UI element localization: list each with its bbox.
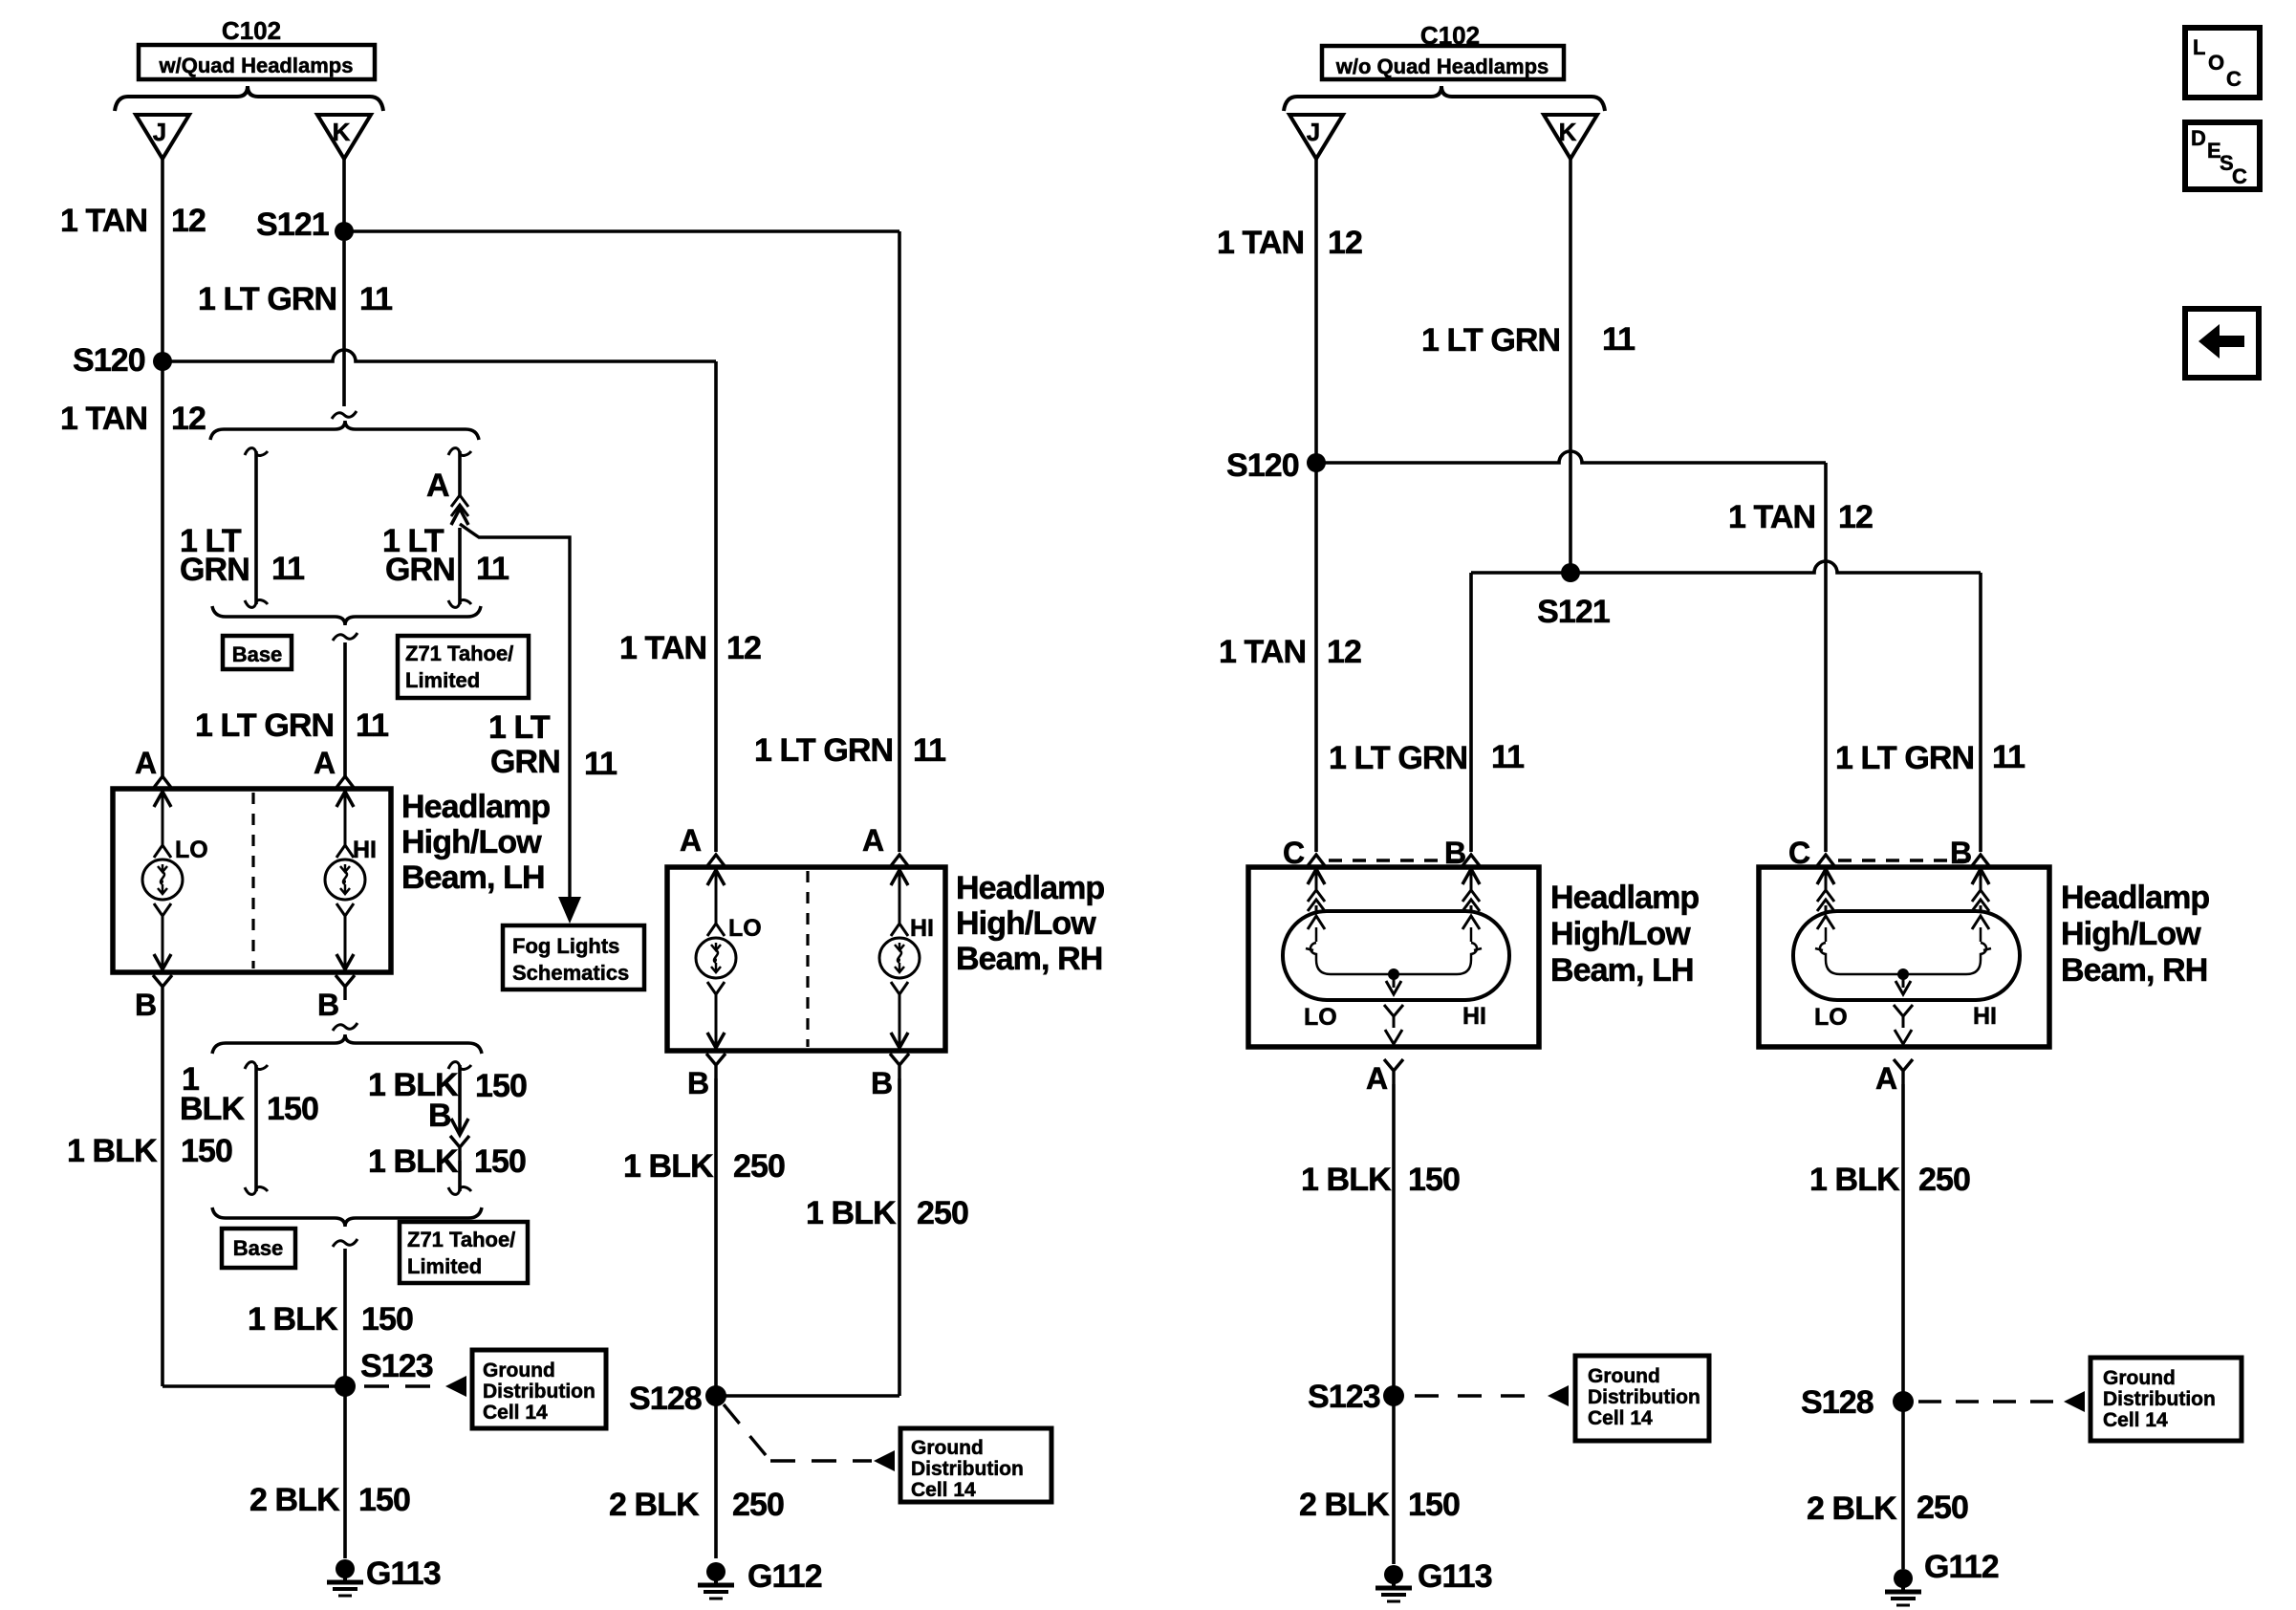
svg-text:150: 150 [475, 1068, 527, 1104]
svg-text:HI: HI [353, 837, 377, 863]
svg-text:LO: LO [1814, 1004, 1848, 1031]
node S128 (middle) [705, 1385, 726, 1406]
svg-text:Ground: Ground [2103, 1367, 2176, 1389]
ground option bracket Base [245, 1062, 268, 1070]
svg-text:A: A [314, 746, 336, 780]
wire K vertical above S120 (1 LT GRN 11) [342, 241, 346, 406]
headlamp High/Low Beam, RH HI bulb [879, 938, 920, 978]
svg-text:11: 11 [476, 551, 509, 587]
headlamp High/Low Beam, LH (w/o quad) filament stadium [1283, 911, 1509, 1000]
svg-text:11: 11 [913, 732, 945, 769]
svg-text:12: 12 [726, 630, 761, 666]
svg-text:C102: C102 [222, 16, 281, 45]
headlamp High/Low Beam, LH LO branch arrows [154, 792, 171, 807]
svg-text:1 LT GRN: 1 LT GRN [754, 732, 893, 769]
Ground Distribution Cell 14 box (S123 left) [472, 1350, 606, 1428]
wire J vertical (right, 1 TAN 12) [1314, 159, 1318, 852]
svg-text:1 LT GRN: 1 LT GRN [1835, 740, 1974, 776]
svg-text:Z71 Tahoe/: Z71 Tahoe/ [407, 1228, 515, 1251]
svg-text:1 TAN: 1 TAN [619, 630, 706, 666]
pin B connector chevron (right LH lamp) [1462, 855, 1481, 867]
svg-text:S120: S120 [73, 342, 145, 379]
wire from S120 to RH lamp LO (horizontal with hop + vertical) [162, 350, 716, 361]
ground G112 (right) [1885, 1569, 1921, 1605]
arrow into fog lights box [558, 897, 581, 924]
dashed reference to ground distribution (S123 left) [364, 1384, 435, 1387]
svg-text:11: 11 [1602, 321, 1635, 358]
svg-text:B: B [871, 1066, 893, 1100]
back arrow glyph [2199, 324, 2244, 359]
svg-text:BLK: BLK [180, 1091, 246, 1127]
svg-text:G112: G112 [1924, 1549, 1999, 1585]
svg-text:1 BLK: 1 BLK [67, 1133, 158, 1169]
svg-text:Headlamp: Headlamp [1550, 880, 1699, 916]
svg-text:12: 12 [1838, 499, 1873, 535]
svg-text:LO: LO [728, 915, 762, 942]
svg-text:1 BLK: 1 BLK [1301, 1162, 1392, 1198]
svg-text:Ground: Ground [1588, 1365, 1660, 1387]
svg-text:2 BLK: 2 BLK [609, 1487, 700, 1523]
svg-text:High/Low: High/Low [401, 824, 542, 860]
svg-text:2 BLK: 2 BLK [1299, 1487, 1390, 1523]
svg-text:J: J [1307, 118, 1320, 146]
pin C connector chevron (right RH lamp) [1816, 855, 1835, 867]
headlamp High/Low Beam, RH LO lower arrow [707, 982, 725, 994]
svg-text:S121: S121 [256, 207, 329, 243]
curl at top of lamp feed wire [333, 633, 357, 641]
svg-text:Distribution: Distribution [2103, 1388, 2216, 1410]
dashed reference to ground distribution (S123 right) [1415, 1394, 1539, 1397]
svg-text:Cell 14: Cell 14 [483, 1402, 548, 1424]
headlamp High/Low Beam, LH (w/o quad) common output connector [1384, 1005, 1403, 1016]
pin A connector chevron (LH lamp LO) [153, 776, 172, 789]
svg-text:Z71 Tahoe/: Z71 Tahoe/ [405, 642, 513, 665]
ground G113 (left) [327, 1559, 363, 1596]
headlamp High/Low Beam, RH HI lower arrow [891, 982, 908, 994]
svg-text:G113: G113 [1418, 1558, 1492, 1595]
option bracket Z71 (1 LT GRN 11) [448, 448, 471, 456]
svg-text:G112: G112 [747, 1558, 822, 1595]
wire RH HI to S128 (1 BLK 250) [898, 1078, 901, 1396]
svg-text:S120: S120 [1226, 447, 1299, 484]
headlamp High/Low Beam, RH (w/o quad) pin arrow x=1910 [1817, 869, 1834, 884]
pin A connector chevron (RH lamp LO) [706, 855, 726, 867]
svg-text:12: 12 [171, 401, 206, 437]
svg-text:GRN: GRN [385, 552, 455, 588]
connector C102 box w/Quad Headlamps [139, 45, 375, 79]
svg-text:A: A [1875, 1061, 1897, 1096]
svg-text:Base: Base [232, 642, 283, 666]
headlamp High/Low Beam, RH (w/o quad) box [1759, 867, 2049, 1047]
svg-text:LO: LO [175, 837, 208, 863]
headlamp High/Low Beam, LH (w/o quad) inner filament loop [1310, 943, 1477, 974]
svg-text:11: 11 [356, 707, 388, 744]
pin A connector chevron (LH lamp HI) [336, 776, 355, 789]
headlamp High/Low Beam, RH internal dashed divider [806, 871, 809, 1047]
brace grouping ground options (top) [212, 1034, 482, 1054]
headlamp High/Low Beam, RH box [667, 867, 945, 1051]
svg-text:Beam, RH: Beam, RH [2061, 952, 2207, 989]
svg-text:B: B [317, 988, 339, 1022]
connector C102 box w/o Quad Headlamps [1322, 46, 1564, 79]
svg-text:A: A [680, 823, 702, 858]
svg-text:Distribution: Distribution [483, 1381, 596, 1403]
svg-text:A: A [1366, 1061, 1388, 1096]
svg-text:150: 150 [1408, 1162, 1460, 1198]
Z71 Tahoe/Limited option box (upper) [398, 636, 529, 698]
headlamp High/Low Beam, RH (w/o quad) common output connector [1894, 1005, 1913, 1016]
svg-text:250: 250 [1918, 1162, 1970, 1198]
svg-text:1 LT GRN: 1 LT GRN [198, 281, 336, 317]
svg-text:HI: HI [1462, 1003, 1486, 1030]
Ground Distribution Cell 14 box (S128 middle) [900, 1428, 1051, 1502]
svg-text:K: K [333, 118, 351, 146]
headlamp High/Low Beam, LH (w/o quad) pin arrow x=1377 [1308, 869, 1325, 884]
svg-text:1 BLK: 1 BLK [248, 1301, 338, 1338]
svg-text:Ground: Ground [483, 1360, 555, 1382]
wire K vertical (right, 1 LT GRN 11) [1569, 159, 1572, 573]
DESC legend box [2185, 122, 2260, 189]
svg-text:1 TAN: 1 TAN [1219, 634, 1306, 670]
svg-text:High/Low: High/Low [956, 905, 1096, 942]
svg-text:B: B [135, 988, 157, 1022]
brace under C102 (left) [115, 86, 383, 111]
svg-text:HI: HI [910, 915, 934, 942]
svg-text:2 BLK: 2 BLK [249, 1482, 340, 1518]
connector pin K triangle (left) [317, 115, 371, 159]
svg-text:Distribution: Distribution [911, 1458, 1024, 1480]
headlamp High/Low Beam, LH internal dashed divider [251, 793, 254, 968]
svg-text:GRN: GRN [490, 744, 560, 780]
svg-text:Beam, LH: Beam, LH [1550, 952, 1694, 989]
headlamp High/Low Beam, LH box [113, 789, 391, 972]
headlamp High/Low Beam, LH LO lower arrow [154, 903, 171, 916]
Ground Distribution Cell 14 box (S128 right) [2090, 1358, 2242, 1441]
connector pin K triangle (right) [1544, 115, 1597, 159]
svg-text:1 TAN: 1 TAN [60, 401, 147, 437]
svg-text:High/Low: High/Low [1550, 916, 1691, 952]
node S123 (right) [1383, 1385, 1404, 1406]
svg-text:L: L [2193, 35, 2205, 59]
Ground Distribution Cell 14 box (S123 right) [1575, 1356, 1709, 1441]
pin C connector chevron (right LH lamp) [1307, 855, 1326, 867]
svg-text:11: 11 [1491, 739, 1524, 775]
svg-text:11: 11 [1992, 739, 2025, 775]
svg-text:1 BLK: 1 BLK [1809, 1162, 1900, 1198]
back arrow box [2185, 309, 2259, 378]
svg-text:11: 11 [584, 746, 617, 782]
svg-text:Distribution: Distribution [1588, 1386, 1700, 1408]
headlamp High/Low Beam, RH LO bulb [696, 938, 736, 978]
svg-text:150: 150 [267, 1091, 318, 1127]
svg-text:150: 150 [358, 1482, 410, 1518]
wire from S121 to both lamp B pins (horizontal with hop) [1471, 561, 1981, 573]
svg-text:C: C [2232, 164, 2247, 188]
svg-text:w/o Quad Headlamps: w/o Quad Headlamps [1335, 54, 1549, 78]
svg-text:S123: S123 [1308, 1379, 1380, 1415]
svg-text:Base: Base [233, 1236, 284, 1260]
wire to LH lamp HI (1 LT GRN 11) [343, 642, 347, 779]
curl under B (HI) [333, 1023, 357, 1031]
headlamp High/Low Beam, LH (w/o quad) filament junction dot [1388, 968, 1399, 980]
svg-text:12: 12 [1327, 634, 1361, 670]
brace grouping wire options (top of option group) [210, 421, 479, 440]
svg-text:B: B [687, 1066, 709, 1100]
svg-text:11: 11 [271, 551, 304, 587]
headlamp High/Low Beam, LH LO bulb [142, 859, 183, 900]
svg-text:250: 250 [732, 1487, 784, 1523]
node S128 (right) [1893, 1391, 1914, 1412]
svg-text:250: 250 [733, 1148, 785, 1185]
ground G112 (middle) [698, 1562, 734, 1599]
svg-text:11: 11 [359, 281, 392, 317]
wire J vertical (left, 1 TAN 12) [161, 159, 164, 779]
svg-text:12: 12 [1328, 225, 1362, 261]
svg-text:150: 150 [1408, 1487, 1460, 1523]
wire to S123 (1 BLK 150) [343, 1249, 347, 1558]
LOC legend box [2185, 28, 2260, 98]
Base option box (upper) [223, 636, 292, 669]
pin B connector (RH lamp HI) [890, 1054, 909, 1078]
ground option bracket Z71 with B connector [448, 1062, 471, 1070]
pin B connector chevron (right RH lamp) [1971, 855, 1990, 867]
node S123 (left) [335, 1376, 356, 1397]
brace closing wire options (bottom of option group) [212, 606, 481, 625]
headlamp High/Low Beam, RH (w/o quad) filament stadium [1793, 911, 2020, 1000]
headlamp High/Low Beam, LH HI bulb [325, 859, 365, 900]
connector pin J triangle (right) [1289, 115, 1343, 159]
svg-text:1 LT GRN: 1 LT GRN [1329, 740, 1467, 776]
option bracket Base (1 LT GRN 11) [245, 448, 268, 456]
wire from S120 to RH lamp C (horizontal with hop + vertical) [1316, 451, 1826, 463]
svg-text:250: 250 [1917, 1490, 1968, 1526]
headlamp High/Low Beam, RH (w/o quad) filament junction dot [1897, 968, 1909, 980]
dashed reference to ground distribution (S128 right) [1918, 1400, 2055, 1403]
Z71 Tahoe/Limited option box (lower) [400, 1222, 528, 1283]
svg-text:Limited: Limited [407, 1254, 482, 1278]
svg-text:12: 12 [171, 203, 206, 239]
svg-text:1 BLK: 1 BLK [368, 1067, 459, 1103]
connector pin J triangle (left) [136, 115, 189, 159]
Base option box (lower) [222, 1229, 295, 1268]
svg-text:High/Low: High/Low [2061, 916, 2201, 952]
svg-text:Beam, LH: Beam, LH [401, 859, 545, 896]
svg-text:2 BLK: 2 BLK [1807, 1490, 1897, 1527]
svg-text:w/Quad Headlamps: w/Quad Headlamps [159, 54, 354, 77]
svg-text:J: J [153, 118, 166, 146]
headlamp High/Low Beam, RH LO branch arrows [707, 870, 725, 885]
wire K from triangle to S121 [342, 159, 346, 231]
brace under C102 (right) [1284, 86, 1605, 111]
svg-text:1 LT: 1 LT [488, 709, 551, 746]
wire LH lamp LO ground (1 BLK 150) [161, 1000, 164, 1386]
svg-text:Headlamp: Headlamp [2061, 880, 2209, 916]
svg-text:Beam, RH: Beam, RH [956, 941, 1102, 977]
headlamp High/Low Beam, LH (w/o quad) box [1248, 867, 1539, 1047]
wire break tilde on K wire [332, 411, 357, 419]
wire right LH lamp to S123 (1 BLK 150) [1392, 1084, 1396, 1564]
svg-text:G113: G113 [366, 1556, 441, 1592]
svg-text:150: 150 [181, 1133, 232, 1169]
node S120 (left) [153, 352, 172, 371]
headlamp High/Low Beam, RH (w/o quad) pin arrow x=2072 [1972, 869, 1989, 884]
svg-text:1 LT GRN: 1 LT GRN [195, 707, 334, 744]
svg-text:Cell 14: Cell 14 [1588, 1407, 1653, 1429]
svg-text:1 BLK: 1 BLK [806, 1195, 897, 1231]
svg-text:1 BLK: 1 BLK [368, 1143, 459, 1180]
svg-text:Headlamp: Headlamp [956, 870, 1104, 906]
Fog Lights Schematics box [503, 925, 644, 990]
svg-text:A: A [426, 468, 450, 504]
svg-text:1 BLK: 1 BLK [623, 1148, 714, 1185]
pin A connector chevron (RH lamp HI) [890, 855, 909, 867]
svg-text:1 TAN: 1 TAN [60, 203, 147, 239]
brace closing ground options (bottom) [212, 1207, 482, 1227]
svg-text:Cell 14: Cell 14 [2103, 1409, 2168, 1431]
pin A connector (right LH lamp) [1384, 1059, 1403, 1084]
pin A connector (right RH lamp) [1894, 1059, 1913, 1084]
dashed connector line C-B (right RH lamp) [1838, 859, 1969, 861]
wire tap to fog lights schematics [460, 524, 570, 897]
dashed connector line C-B (right LH lamp) [1329, 859, 1460, 861]
ground G113 (right) [1375, 1565, 1412, 1601]
node S120 (right) [1307, 453, 1326, 472]
svg-text:250: 250 [917, 1195, 968, 1231]
wire right RH lamp to S128 (1 BLK 250) [1901, 1084, 1905, 1569]
svg-text:GRN: GRN [180, 552, 249, 588]
svg-text:1 TAN: 1 TAN [1728, 499, 1815, 535]
svg-text:1 LT GRN: 1 LT GRN [1421, 322, 1560, 359]
svg-text:HI: HI [1973, 1003, 1997, 1030]
wire RH LO to S128 (1 BLK 250) [714, 1078, 718, 1558]
svg-text:Schematics: Schematics [512, 961, 629, 985]
headlamp High/Low Beam, RH (w/o quad) inner filament loop [1820, 943, 1986, 974]
svg-text:S128: S128 [1801, 1384, 1874, 1421]
svg-text:1 TAN: 1 TAN [1217, 225, 1304, 261]
node S121 (left) [335, 222, 354, 241]
pin B connector (LH lamp HI) [336, 975, 355, 1000]
wire elbow from LH LO ground into S123 [162, 1384, 345, 1388]
svg-text:150: 150 [361, 1301, 413, 1338]
svg-text:C: C [2226, 67, 2242, 91]
svg-text:LO: LO [1304, 1004, 1337, 1031]
headlamp High/Low Beam, LH (w/o quad) pin arrow x=1539 [1462, 869, 1480, 884]
svg-text:S123: S123 [360, 1348, 433, 1384]
svg-text:A: A [135, 746, 157, 780]
headlamp High/Low Beam, LH HI branch arrows [336, 792, 354, 807]
svg-text:O: O [2208, 51, 2224, 75]
svg-text:Ground: Ground [911, 1437, 984, 1459]
svg-text:Headlamp: Headlamp [401, 789, 550, 825]
pin B connector (RH lamp LO) [706, 1054, 726, 1078]
headlamp High/Low Beam, LH HI lower arrow [336, 903, 354, 916]
svg-text:150: 150 [474, 1143, 526, 1180]
svg-text:Limited: Limited [405, 668, 480, 692]
pin B connector (LH lamp LO) [153, 975, 172, 1000]
svg-text:Cell 14: Cell 14 [911, 1479, 976, 1501]
node S121 (right) [1561, 563, 1580, 582]
svg-text:D: D [2191, 126, 2206, 150]
svg-text:S121: S121 [1537, 594, 1610, 630]
svg-text:S128: S128 [629, 1381, 702, 1417]
wire from S121 to RH lamp HI (horizontal + vertical) [344, 229, 899, 233]
curl at top of S123 feed wire [333, 1239, 357, 1247]
svg-text:K: K [1559, 118, 1577, 146]
headlamp High/Low Beam, RH HI branch arrows [891, 870, 908, 885]
dashed reference to ground distribution (S128 middle) [724, 1404, 770, 1461]
svg-text:A: A [862, 823, 884, 858]
svg-text:Fog Lights: Fog Lights [512, 934, 619, 958]
